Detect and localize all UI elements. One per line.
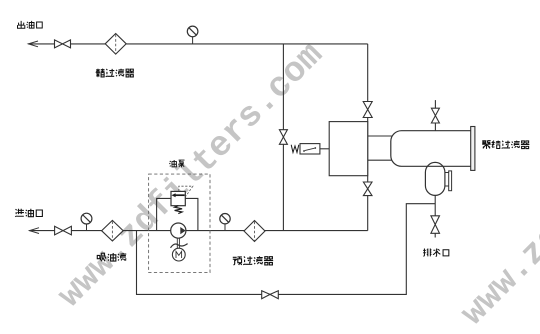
pump unit dashed enclosure	[149, 174, 210, 273]
wire: neck bottom	[368, 159, 395, 161]
header rectangle	[329, 122, 368, 176]
svg-text:www.zdfilters.com: www.zdfilters.com	[453, 53, 540, 334]
relief valve RV square	[171, 191, 185, 205]
valve V8 drain	[431, 216, 440, 234]
label 吸油滤	[97, 253, 126, 261]
filter F2 suction filter diamond	[102, 220, 124, 241]
arrow outlet	[28, 41, 38, 47]
wire: vertical line at x=367.7	[367, 44, 369, 231]
svg-text:www.zdfilters.com: www.zdfilters.com	[50, 35, 331, 316]
label 出油口	[17, 21, 42, 28]
wire: neck top	[368, 135, 395, 137]
valve V3 above header	[363, 102, 372, 118]
label 油泵	[169, 160, 184, 167]
coupling	[171, 244, 188, 248]
relief loop wires	[157, 198, 198, 230]
coalescing filter vessel	[391, 127, 475, 171]
filter F3 pre-filter diamond	[244, 221, 265, 242]
label 预过滤器	[233, 256, 273, 265]
motor M1	[172, 248, 185, 261]
valve V6 inlet line	[55, 226, 72, 235]
arrow inlet	[30, 228, 40, 234]
valve V5 vent on vessel	[431, 108, 439, 123]
label 精过滤器	[96, 69, 134, 77]
valve V4 below header	[363, 182, 372, 196]
label W	[291, 145, 299, 153]
gauge G2 on inlet line	[81, 213, 92, 230]
wire: recirculation bypass	[137, 204, 436, 295]
valve V1 outlet line	[55, 40, 71, 48]
relief valve pilot dashed line	[179, 186, 193, 196]
water sump	[425, 162, 451, 195]
label 进油口	[15, 209, 42, 217]
pump P1	[171, 223, 186, 238]
gauge G3 before pre-filter	[220, 214, 230, 231]
filter F1 fine filter diamond	[105, 34, 126, 55]
wire: drain line from sump	[434, 195, 436, 237]
pump shaft	[177, 238, 179, 250]
valve V2 on mid vertical	[279, 130, 287, 145]
relief valve spring	[175, 206, 183, 214]
gauge G1 on top line	[187, 26, 198, 44]
valve V7 bypass line	[262, 291, 279, 299]
wire: W-box connector	[320, 148, 329, 150]
label 聚结过滤器	[482, 141, 529, 149]
W flow switch box	[300, 144, 320, 154]
label 排水口	[423, 248, 449, 256]
wire: top outlet line	[28, 43, 368, 45]
wire: vent line on vessel top	[434, 100, 436, 131]
wire: bottom main (inlet) line	[29, 230, 367, 232]
wire: vertical line at x=283.4	[282, 44, 284, 231]
